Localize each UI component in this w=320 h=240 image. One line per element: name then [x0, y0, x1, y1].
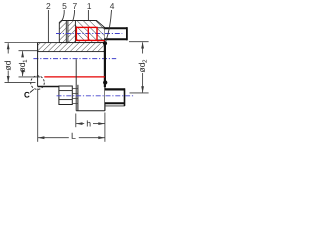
collar line short: [77, 85, 79, 111]
stub tube bottom right: [57, 88, 134, 106]
label L: [72, 133, 76, 139]
label od2: [139, 60, 147, 73]
dimension od1: [19, 51, 41, 77]
leader 1: [87, 10, 89, 20]
detail circle C: [31, 76, 45, 90]
nut internal double line: [67, 21, 68, 43]
dimension od2: [129, 42, 149, 93]
hex body side view: [59, 86, 72, 105]
ferrule boundary line: [74, 21, 76, 43]
body hatch right: [75, 21, 104, 43]
leader 7: [73, 10, 75, 20]
tube (4): [56, 27, 127, 40]
red weld seam line: [44, 76, 105, 78]
wall plate section (hatched): [38, 43, 105, 52]
callout 2: [46, 3, 50, 9]
leader 5: [62, 10, 64, 20]
centerline main axis: [33, 58, 116, 60]
centerline top tube axis: [56, 33, 122, 35]
label C: [24, 92, 29, 98]
nut hatch left: [59, 21, 75, 43]
nut (5) body outline: [59, 21, 104, 43]
label od1: [19, 60, 27, 73]
collar line long: [75, 59, 77, 111]
weld dot bottom: [103, 80, 107, 84]
dimension od: [5, 43, 38, 83]
thread ticks: [72, 89, 78, 104]
dimension h: [76, 114, 105, 128]
leader C: [30, 89, 34, 92]
leader 2: [47, 10, 49, 42]
callout 5: [62, 3, 66, 9]
label od: [4, 61, 10, 70]
highlighted part 1 red box: [76, 27, 104, 40]
bottom bar outline: [76, 87, 105, 111]
weld dot top: [103, 41, 107, 45]
callout 4: [110, 3, 114, 9]
dimension L: [38, 89, 105, 142]
callout 7: [73, 3, 77, 9]
leader 4: [106, 10, 112, 41]
callout 1: [87, 3, 91, 9]
centerline bottom stub axis: [57, 95, 134, 97]
part bottom cylinder edge: [38, 86, 59, 88]
weld edge thick line right: [104, 43, 106, 87]
label h: [87, 120, 91, 126]
part left edge: [37, 43, 39, 87]
